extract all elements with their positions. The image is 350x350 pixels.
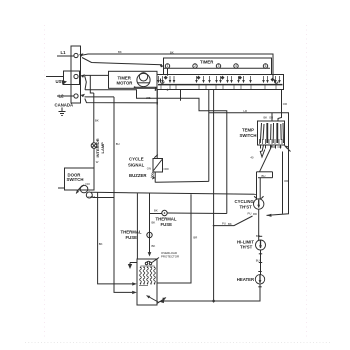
svg-text:BR: BR [193,236,197,240]
svg-text:OR: OR [278,145,282,149]
svg-text:HEATER: HEATER [237,277,255,282]
svg-text:TH'ST: TH'ST [240,204,253,209]
svg-text:OR: OR [284,179,288,183]
svg-text:LAMP: LAMP [100,142,105,154]
svg-text:BU: BU [256,259,260,263]
svg-text:RD: RD [253,212,257,216]
svg-text:PU: PU [222,221,226,225]
svg-text:SIGNAL: SIGNAL [128,163,145,168]
svg-text:BK: BK [264,116,268,120]
svg-text:FUSE: FUSE [161,222,173,227]
svg-text:BU: BU [256,234,260,238]
svg-text:OR: OR [283,102,287,106]
svg-text:BK: BK [170,51,174,55]
svg-text:PROTECTOR: PROTECTOR [161,255,179,259]
svg-text:TIMER: TIMER [200,60,214,65]
svg-text:CYCLE: CYCLE [129,157,144,162]
svg-text:MOTOR: MOTOR [117,80,134,85]
svg-text:BU: BU [116,142,120,146]
svg-text:BUZZER: BUZZER [129,173,147,178]
svg-text:ON: ON [147,167,151,171]
svg-text:THERMAL: THERMAL [156,217,177,222]
svg-text:BK: BK [154,208,158,212]
svg-text:TEMP: TEMP [242,128,254,133]
svg-text:BU: BU [262,174,266,178]
svg-text:BK: BK [118,50,122,54]
svg-text:TH'ST: TH'ST [240,245,253,250]
svg-text:THERMAL: THERMAL [121,230,142,235]
svg-text:BK: BK [95,119,99,123]
svg-text:OR: OR [269,116,273,120]
svg-text:NO: NO [86,182,91,186]
svg-text:BK: BK [228,222,232,226]
svg-text:BK: BK [272,145,276,149]
svg-text:BK: BK [152,221,156,225]
svg-text:L2: L2 [59,94,65,99]
svg-text:BK: BK [99,242,103,246]
svg-text:FUSE: FUSE [126,235,138,240]
svg-text:CYCLING: CYCLING [235,199,255,204]
svg-text:OFF: OFF [164,167,170,171]
svg-text:BK: BK [152,244,156,248]
svg-text:CANADA: CANADA [55,103,74,108]
svg-text:SWITCH: SWITCH [240,133,257,138]
svg-text:WB: WB [146,96,151,100]
svg-text:US: US [56,79,62,84]
svg-text:L1: L1 [61,50,67,55]
svg-text:PU: PU [248,212,252,216]
svg-text:SWITCH: SWITCH [67,177,84,182]
svg-text:LR: LR [244,109,248,113]
svg-text:40: 40 [250,155,254,159]
svg-text:COM: COM [88,195,95,199]
svg-text:W: W [96,160,99,164]
